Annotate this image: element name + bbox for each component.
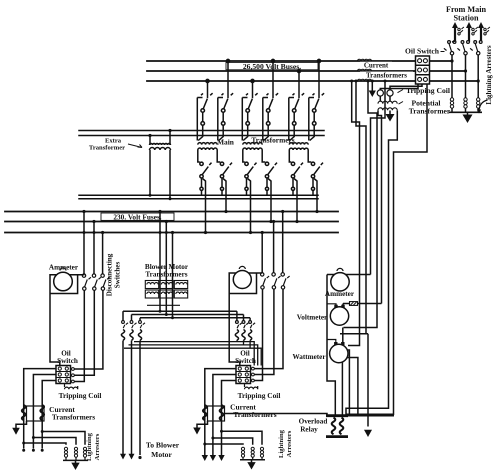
incoming line L2 from main station <box>468 26 470 41</box>
arrow up L2 <box>466 22 472 28</box>
overload relay coil 1 <box>332 418 336 435</box>
bus 230V line 3 <box>5 232 338 234</box>
wattmeter left wire <box>327 340 336 342</box>
blower return wire 3 <box>124 348 261 365</box>
feeder1 outgoing terminal B <box>32 449 35 452</box>
feeder2 disconnecting switch C <box>253 273 290 369</box>
junction dot L3 bus <box>477 79 480 82</box>
instrument wire v4 <box>344 81 378 328</box>
label 26500 Volt Buses <box>226 62 318 71</box>
svg-text:Arresters: Arresters <box>94 433 101 460</box>
CT ground arrow <box>369 91 376 98</box>
arrow up L3 <box>478 22 484 28</box>
feeder2 arrester stack C <box>260 447 263 460</box>
feeder1 tap wire C <box>102 233 104 274</box>
svg-text:Disconnecting: Disconnecting <box>106 253 114 296</box>
T2 left secondary switch <box>243 150 257 233</box>
feeder2 CT ground wire <box>197 421 208 428</box>
feeder2 outgoing arrow A <box>202 455 208 461</box>
feeder2 tap wire B <box>273 222 275 273</box>
label 230 Volt Buses <box>101 213 174 222</box>
feeder2 current transformer coil C <box>220 405 224 420</box>
feeder2 outgoing arrow C <box>218 455 224 461</box>
arrester ground arrow <box>463 115 473 124</box>
blower tap wire A <box>159 212 161 312</box>
feeder1 arrester stack A <box>64 447 67 460</box>
secondary transfer wire B <box>79 198 318 200</box>
svg-text:Tripping Coil: Tripping Coil <box>59 391 102 400</box>
svg-text:Transformers: Transformers <box>233 410 276 419</box>
wattmeter bottom wire <box>341 362 343 416</box>
svg-text:Overload: Overload <box>299 418 328 426</box>
blower distribution wire 3 <box>140 317 250 319</box>
wattmeter top terminals <box>336 328 343 345</box>
svg-text:Ammeter: Ammeter <box>49 263 79 271</box>
transformer T3 secondary coil <box>289 148 308 150</box>
blower secondary lead C <box>171 316 174 319</box>
lightning arrester stack 3 <box>477 98 480 113</box>
ammeter A2 loop <box>229 273 262 366</box>
wattmeter right wire 3 <box>347 350 349 416</box>
svg-text:Main: Main <box>217 138 234 147</box>
T1 right column drop from bus <box>218 59 233 140</box>
instrument wire v7 trip circuit <box>346 84 427 414</box>
feeder1 arrester ground bar <box>63 460 88 463</box>
blower left switch-choke column 3 <box>138 318 145 455</box>
choke fuse L2 <box>472 27 478 35</box>
feeder2 arrester ground arrow <box>247 462 255 469</box>
feeder2 arrester branch A <box>222 431 263 444</box>
svg-text:Arresters: Arresters <box>286 430 293 457</box>
arrow up L1 <box>452 22 458 28</box>
feeder2 CT relay wire <box>225 414 328 416</box>
T1 left secondary switch <box>198 150 212 233</box>
primary transfer wire A <box>79 130 324 132</box>
transformer T2 primary coil <box>243 143 262 145</box>
blower tap wire C <box>172 233 174 318</box>
feeder2 outgoing wire A <box>205 369 236 456</box>
blower right switch-choke column 1 <box>235 311 242 341</box>
feeder1 outgoing terminal A <box>22 449 25 452</box>
blower motor arrow 1 <box>120 454 126 460</box>
bus 26500V line 1 <box>147 60 452 62</box>
overload relay coil 2 <box>340 418 344 435</box>
primary transfer wire B <box>79 135 324 137</box>
feeder1 outgoing wire C <box>42 381 56 449</box>
instrument wire v6 PT secondary <box>346 110 397 415</box>
feeder2 CT secondary loop <box>208 406 225 421</box>
tripping coil feed wire 2 <box>390 84 422 90</box>
T2 left column drop from bus <box>242 79 257 140</box>
tripping coil TC2 <box>387 90 393 96</box>
T3 left column drop from bus <box>289 69 304 140</box>
PT ground arrow <box>386 114 395 122</box>
potential transformer PT primary <box>378 101 397 103</box>
overload relay top bar <box>326 414 348 417</box>
instrument chain wire <box>327 275 335 416</box>
ammeter A3 <box>331 273 349 291</box>
feeder1 disconnecting switch A <box>73 274 91 382</box>
transformer T2 secondary coil <box>243 148 262 150</box>
blower left switch-choke column 2 <box>130 315 137 456</box>
transformer T1 primary coil <box>198 143 217 145</box>
incoming line L3 from main station <box>480 26 482 41</box>
feeder1 outgoing wire A <box>24 369 56 449</box>
svg-text:Switch: Switch <box>57 357 78 365</box>
voltmeter left wire <box>327 303 336 306</box>
svg-text:Oil Switch: Oil Switch <box>405 47 440 56</box>
label Current Transformers top <box>360 62 413 80</box>
disconnect switch L3 <box>470 41 482 81</box>
svg-text:Voltmeter: Voltmeter <box>297 314 328 322</box>
current transformer CT1 on line1 <box>358 59 372 61</box>
svg-text:Ammeter: Ammeter <box>325 290 355 298</box>
feeder1 CT ground arrow <box>12 428 20 435</box>
disconnect switch L1 <box>444 41 456 61</box>
lightning arrester stack 1 <box>450 98 453 113</box>
svg-text:Lightning Arresters: Lightning Arresters <box>485 45 493 104</box>
secondary transfer wire A <box>79 194 318 196</box>
voltmeter wire with fuse <box>343 303 382 305</box>
blower return wire 2 <box>129 345 258 366</box>
oil switch U1 box <box>416 56 430 84</box>
feeder2 arrester ground bar <box>240 460 265 463</box>
feeder1 outgoing terminal C <box>41 449 44 452</box>
current transformer CT2 on line2 <box>358 69 372 71</box>
oil switch U1 contacts <box>418 59 428 82</box>
oil switch U2 box <box>56 366 71 384</box>
label pointer curve <box>479 100 488 111</box>
PT primary leads <box>380 96 390 101</box>
wire L3 to arrester <box>477 81 479 98</box>
blower return wire 1 <box>134 342 254 366</box>
blower secondary bar <box>147 304 180 306</box>
CT ground wire <box>371 81 373 91</box>
wattmeter ground link <box>340 334 368 427</box>
blower motor arrow 3 <box>138 456 141 459</box>
ammeter A3 feed wire <box>327 274 371 276</box>
feeder1 arrester branch B <box>33 438 76 445</box>
oil switch U3 contacts <box>238 367 254 382</box>
feeder2 arrester branch B <box>213 438 253 445</box>
extra transformer primary coil <box>150 144 171 146</box>
potential transformer PT secondary <box>378 108 397 110</box>
T2 right secondary switch <box>262 150 277 222</box>
disconnect switch L2 <box>457 41 469 71</box>
feeder1 current transformer coil C <box>40 405 44 420</box>
blower left switch-choke column 1 <box>121 311 128 455</box>
blower secondary lead B <box>165 313 168 316</box>
wattmeter right wire 2 <box>348 358 358 416</box>
instrument wire v1 <box>348 81 360 346</box>
tripping coil feed wire 1 <box>380 84 418 90</box>
feeder2 CT ground arrow <box>193 428 201 435</box>
oil switch U2 contacts <box>58 367 74 383</box>
svg-text:Transformers: Transformers <box>145 271 187 279</box>
arrester ground bar <box>449 111 482 113</box>
blower distribution wire 2 <box>132 314 244 316</box>
bus 26500V line 3 <box>147 80 478 82</box>
blower transformer bank row 1 <box>145 281 187 289</box>
junction dot L1 bus <box>450 59 453 62</box>
feeder2 disconnecting switch A <box>253 273 269 381</box>
transformer T1 secondary coil <box>198 148 217 150</box>
feeder1 tap wire B <box>93 222 95 274</box>
lightning arrester stack 2 <box>464 98 467 113</box>
feeder2 outgoing arrow B <box>210 455 216 461</box>
tripping coil TC1 <box>377 90 383 96</box>
blower distribution wire 1 <box>123 310 237 312</box>
ammeter A1 <box>54 272 73 291</box>
feeder2 disconnecting switch B <box>253 273 281 375</box>
tripping coil center <box>245 384 258 390</box>
blower right switch-choke column 3 <box>249 318 256 348</box>
svg-text:Station: Station <box>453 14 478 23</box>
svg-text:Tripping Coil: Tripping Coil <box>406 86 450 95</box>
svg-text:26,500 Volt Buses.: 26,500 Volt Buses. <box>243 62 301 71</box>
svg-text:Transformers: Transformers <box>251 136 294 145</box>
extra transformer primary leads <box>150 131 170 146</box>
voltmeter V1 <box>330 307 348 325</box>
svg-text:Motor: Motor <box>151 450 172 459</box>
svg-text:230. Volt Fuses.: 230. Volt Fuses. <box>113 213 161 222</box>
feeder2 arrester stack A <box>241 447 244 460</box>
feeder2 outgoing wire C <box>222 381 237 457</box>
arrester ground wire <box>467 112 469 115</box>
PT ground wire <box>389 111 391 115</box>
feeder2 arrester branch C <box>205 443 243 446</box>
T1 left column drop from bus <box>197 79 212 140</box>
current transformer CT3 on line3 <box>358 79 372 81</box>
T1 right secondary switch <box>217 150 232 212</box>
feeder1 disconnecting switch B <box>73 274 101 375</box>
extra transformer secondary leads <box>150 150 170 199</box>
blower tap wire B <box>165 222 167 315</box>
feeder1 tap wire A <box>83 212 85 274</box>
incoming line L1 from main station <box>454 26 456 41</box>
bus 230V line 1 <box>5 211 338 213</box>
T3 right column drop from bus <box>309 59 324 140</box>
svg-text:Current: Current <box>364 62 389 70</box>
wire L1 to arrester <box>452 41 455 98</box>
ammeter A1 loop <box>50 275 85 366</box>
blower transformer bank row 2 <box>145 290 187 298</box>
oil switch U3 box <box>236 366 251 384</box>
feeder1 CT ground wire <box>16 421 27 428</box>
svg-text:Transformers: Transformers <box>52 412 95 421</box>
instrument wire v2 <box>356 81 366 334</box>
feeder2 tap wire C <box>282 212 284 273</box>
feeder2 outgoing wire B <box>213 375 236 457</box>
ammeter A2 <box>233 271 251 289</box>
feeder1 outgoing wire B <box>33 375 56 449</box>
svg-text:To Blower: To Blower <box>146 441 180 450</box>
T3 left secondary switch <box>289 150 303 222</box>
feeder1 arrester ground arrow <box>71 463 79 470</box>
T3 right secondary switch <box>308 150 323 212</box>
svg-text:Transformer: Transformer <box>89 144 125 151</box>
feeder1 arrester stack C <box>83 447 86 460</box>
wire L2 to arrester <box>465 71 467 98</box>
svg-text:Wattmeter: Wattmeter <box>292 353 326 361</box>
instrument wire v3 <box>371 81 386 275</box>
svg-text:Lightning: Lightning <box>278 429 285 458</box>
feeder2 arrester stack B <box>251 447 254 460</box>
feeder1 disconnecting switch C <box>73 274 110 369</box>
T2 right column drop from bus <box>263 59 278 140</box>
choke fuse L3 <box>484 27 490 35</box>
wattmeter W1 <box>330 344 348 362</box>
svg-text:Switch: Switch <box>235 357 256 365</box>
choke fuse L1 <box>458 27 464 35</box>
feeder1 arrester branch C <box>24 443 66 445</box>
instrument ground arrow <box>364 430 372 437</box>
bus 26500V line 2 <box>147 70 466 72</box>
extra transformer secondary coil <box>150 148 171 150</box>
feeder1 CT secondary loop <box>27 406 45 421</box>
svg-text:Transformers: Transformers <box>366 71 407 79</box>
feeder1 arrester branch A <box>42 432 85 445</box>
overload relay bottom bar <box>326 435 348 438</box>
bus 230V line 2 <box>5 221 338 223</box>
instrument wire v5 PT secondary <box>378 110 382 303</box>
feeder2 tap wire A <box>261 233 263 273</box>
blower secondary lead A <box>159 310 162 313</box>
voltmeter terminals <box>336 304 343 308</box>
svg-text:Relay: Relay <box>300 426 318 434</box>
transformer T3 primary coil <box>289 143 308 145</box>
blower motor arrow 2 <box>129 454 135 460</box>
svg-text:Tripping Coil: Tripping Coil <box>238 391 281 400</box>
feeder1 arrester stack B <box>74 447 77 460</box>
junction dot L2 bus <box>464 69 467 72</box>
feeder1 current transformer coil A <box>22 405 26 420</box>
svg-text:Transformer: Transformer <box>409 107 451 116</box>
svg-text:Lightning: Lightning <box>86 432 93 461</box>
feeder2 current transformer coil A <box>203 405 207 420</box>
svg-text:Switches: Switches <box>114 262 122 289</box>
extra junction dots on bus3 <box>83 231 86 234</box>
blower right switch-choke column 2 <box>242 315 249 345</box>
tripping coil left <box>65 384 78 390</box>
